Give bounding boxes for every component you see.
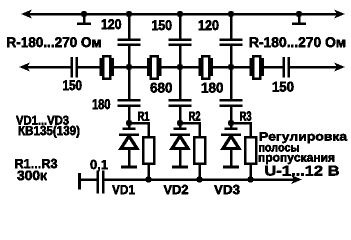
crystal ZQ2: [147, 58, 150, 76]
capacitor C3 120 (shunt top, branch 3): [220, 38, 243, 41]
capacitor C6 180 (branch 1 lower): [118, 99, 141, 102]
wire branch2 signal row to cap: [179, 67, 182, 99]
wire R3 to control rail: [249, 164, 252, 180]
arrow top-left: [21, 10, 32, 19]
wire node E to R2: [180, 123, 200, 137]
wire control rail: [104, 178, 294, 181]
wire branch1 rail to cap: [128, 14, 131, 39]
wire C4 to ZQ1: [78, 66, 100, 69]
node I (rail/R3): [247, 176, 253, 182]
varicap VD3: [230, 123, 233, 128]
node top-left ground junction: [81, 11, 87, 17]
label R2: [189, 111, 200, 120]
capacitor C7 680 (branch 2 lower): [169, 99, 192, 102]
label propuskaniya: [259, 155, 334, 164]
resistor R3: [245, 137, 256, 164]
ground (VD1 anode): [121, 166, 137, 169]
wire branch1 cap to signal row: [128, 46, 131, 67]
label R1...R3: [15, 159, 57, 168]
node F (VD3/R3 junction): [228, 120, 234, 126]
wire branch3 signal row to cap: [230, 67, 233, 99]
label 150 (C2): [152, 20, 171, 30]
label R=180...270 Om (right): [250, 37, 345, 47]
label VD1...VD3: [16, 116, 69, 125]
node A (rail / branch 1): [126, 11, 132, 17]
ground (top right): [298, 14, 301, 23]
varicap VD2: [179, 123, 182, 128]
wire C5 to output: [290, 66, 337, 69]
crystal ZQ4: [250, 58, 253, 76]
label R1: [138, 112, 149, 121]
capacitor C1 120 (shunt top, branch 1): [118, 38, 141, 41]
wire R2 to control rail: [198, 164, 201, 180]
node G (rail/R1): [145, 176, 151, 182]
node B (signal row): [177, 64, 183, 70]
node H (rail/R2): [196, 176, 202, 182]
crystal ZQ1: [100, 58, 103, 76]
label R3: [240, 111, 251, 120]
wire node F to R3: [231, 123, 251, 137]
wire branch1 signal row to cap: [128, 67, 131, 99]
ground (VD3 anode): [223, 166, 239, 169]
label R=180...270 Om (left): [7, 37, 100, 47]
label VD2: [164, 185, 188, 194]
wire node D to R1: [129, 123, 149, 137]
label 150 (C5): [273, 82, 294, 92]
node E (VD2/R2 junction): [177, 120, 183, 126]
wire ZQ4 to C5: [264, 66, 283, 69]
label polosy: [259, 145, 299, 152]
node B (rail / branch 2): [177, 11, 183, 17]
arrow top-right: [334, 10, 345, 19]
capacitor C8 180 (branch 3 lower): [220, 99, 243, 102]
label 0,1 (C9): [91, 160, 108, 171]
capacitor C9 0,1: [96, 171, 99, 194]
label U=1...12 V: [266, 166, 339, 176]
node top-right ground junction: [296, 11, 302, 17]
wire ZQ2 to node B: [161, 66, 198, 69]
wire input to C4: [27, 66, 71, 69]
wire branch2 rail to cap: [179, 14, 182, 39]
label 120 (C1): [102, 19, 121, 29]
wire ground to C9: [80, 178, 97, 181]
label 180 (C8): [202, 83, 223, 93]
ground (VD2 anode): [172, 166, 188, 169]
capacitor C5 150 (series output): [282, 57, 285, 78]
label 680 (C7): [151, 83, 172, 93]
wire top ground rail: [29, 13, 337, 16]
wire branch3 cap to varicap node: [230, 107, 233, 123]
node C (signal row): [228, 64, 234, 70]
ground (control rail left, bar): [78, 173, 81, 190]
varicap VD1: [128, 123, 131, 128]
arrow control voltage: [291, 175, 302, 184]
ground (top left): [83, 14, 86, 23]
label 180 (C6): [93, 99, 110, 109]
node D (VD1/R1 junction): [126, 120, 132, 126]
label Regulirovka: [260, 132, 347, 143]
wire ZQ1 to node A: [114, 66, 148, 69]
label VD1: [112, 185, 135, 194]
node A (signal row): [126, 64, 132, 70]
wire branch1 cap to varicap node: [128, 107, 131, 123]
wire R1 to control rail: [147, 164, 150, 180]
label VD3: [214, 185, 239, 194]
capacitor C2 150 (shunt top, branch 2): [169, 38, 192, 41]
wire ZQ3 to node C: [213, 66, 250, 69]
arrow signal-out (right, middle row): [334, 63, 345, 72]
crystal ZQ3: [198, 58, 201, 76]
wire branch2 cap to signal row: [179, 46, 182, 67]
node C (rail / branch 3): [228, 11, 234, 17]
resistor R2: [194, 137, 205, 164]
resistor R1: [143, 137, 154, 164]
capacitor C4 150 (series input): [70, 57, 73, 78]
label KV135(139): [19, 126, 80, 138]
wire branch3 cap to signal row: [230, 46, 233, 67]
wire branch3 rail to cap: [230, 14, 233, 39]
arrow signal-in (left, middle row): [19, 63, 30, 72]
wire branch2 cap to varicap node: [179, 107, 182, 123]
label 120 (C3): [199, 20, 219, 30]
label 150 (C4): [63, 80, 81, 90]
label 300k: [17, 171, 47, 181]
